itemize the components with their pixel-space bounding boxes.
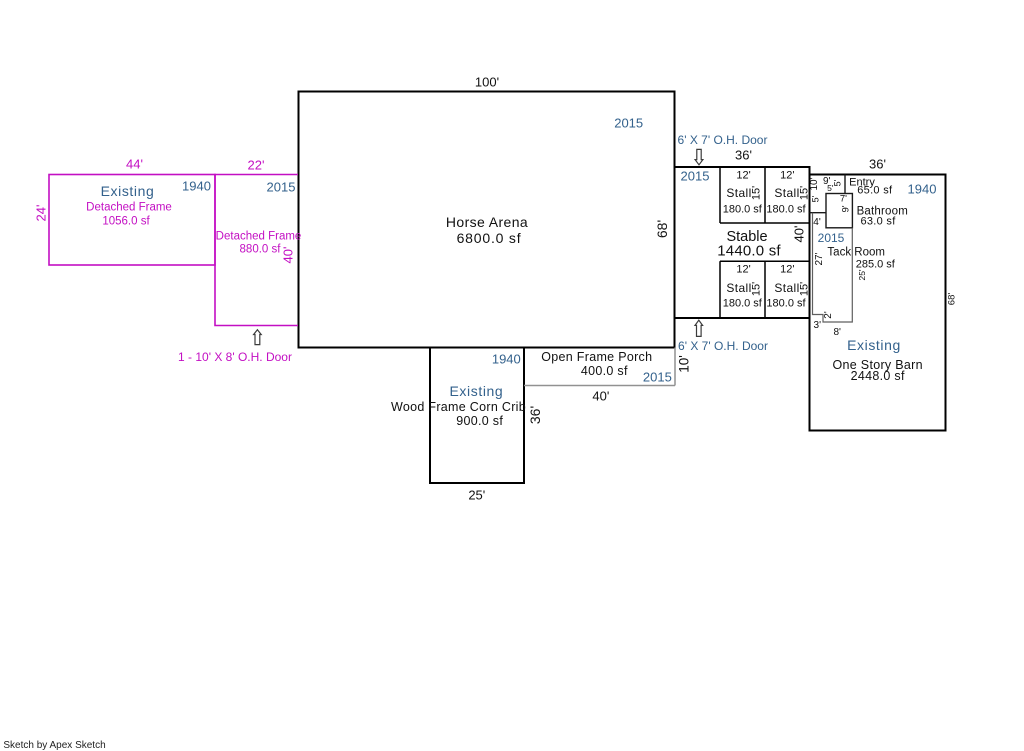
corn crib outline: [430, 348, 524, 484]
label stall r1s1: [726, 187, 751, 199]
area bathroom: [860, 217, 895, 228]
label existing detached frame: [101, 184, 155, 198]
year 1940 barn: [908, 182, 937, 195]
dim 36ft stable: [735, 149, 752, 162]
year 2015 detached frame: [267, 181, 296, 194]
watermark sketch by apex sketch: [3, 741, 105, 751]
dim 40ft porch: [592, 390, 609, 403]
dim 15ft stall r1s2: [799, 186, 810, 200]
dim 8ft tack room: [833, 328, 840, 338]
area stall r1s2: [766, 205, 805, 216]
stall row1 bottom wall: [720, 222, 810, 224]
dim 15ft stall r2s1: [751, 281, 762, 295]
oh door arrow bottom (up): [695, 320, 703, 336]
stall row2 left wall: [719, 261, 721, 318]
oh door arrow top (down): [695, 149, 703, 164]
entry 4ft wall: [810, 212, 827, 214]
label tack room: [827, 248, 885, 260]
label bathroom: [857, 206, 908, 218]
label existing barn: [847, 338, 901, 352]
oh door arrow left building (up): [254, 330, 262, 345]
label open frame porch: [541, 351, 652, 364]
year 2015 stable: [681, 169, 710, 182]
label stall r2s2: [774, 282, 799, 294]
year 2015 tack room: [818, 232, 845, 244]
year 1940 detached frame: [182, 179, 211, 192]
label stall r1s2: [774, 187, 799, 199]
label stable: [726, 229, 767, 244]
label oh door bottom: [678, 340, 768, 352]
area horse arena: [457, 231, 522, 245]
bathroom outline: [826, 194, 852, 228]
area tack room: [856, 260, 895, 271]
year 1940 corn crib: [492, 352, 521, 365]
label entry: [849, 177, 875, 188]
dim 40ft stable: [793, 225, 806, 242]
horse arena outline: [299, 92, 675, 348]
dim 4ft entry: [813, 218, 820, 228]
label wood frame corn crib: [391, 401, 526, 414]
dim 2ft tack room: [824, 311, 834, 318]
dim 36ft barn: [869, 157, 886, 170]
dim 5ft entry b: [833, 180, 842, 187]
dim 12ft stall r2s2: [780, 264, 794, 275]
dim 40ft detached frame 2: [281, 246, 294, 263]
dim 5ft entry c: [811, 195, 820, 202]
label existing corn crib: [449, 384, 503, 398]
stall row1 divider wall: [764, 167, 766, 223]
dim 12ft stall r1s1: [736, 170, 750, 181]
stable outline: [675, 167, 810, 318]
stall row2 top wall: [720, 260, 810, 262]
dim 9ft bathroom: [841, 205, 851, 212]
year 2015 arena: [614, 117, 643, 130]
area one story barn: [851, 370, 905, 383]
dim 10ft entry: [810, 178, 820, 191]
dim 100ft arena: [475, 76, 499, 89]
label detached frame 2: [216, 231, 302, 243]
dim 24ft: [34, 204, 47, 221]
dim 27ft tack room: [815, 253, 825, 266]
area stable: [717, 243, 781, 258]
entry wall: [844, 175, 846, 194]
dim 3ft tack room: [814, 321, 821, 331]
label one story barn: [833, 359, 923, 372]
porch bottom wall: [524, 385, 675, 387]
area detached frame 2: [240, 244, 281, 256]
dim 44ft: [126, 157, 143, 170]
dim 68ft barn: [947, 292, 957, 304]
area stall r1s1: [723, 205, 762, 216]
dim 15ft stall r2s2: [799, 281, 810, 295]
area corn crib: [456, 414, 503, 427]
area stall r2s1: [723, 299, 762, 310]
dim 25ft tack room: [858, 269, 867, 280]
detached frame 880 outline: [215, 175, 298, 326]
area detached frame 1: [102, 216, 149, 228]
label detached frame 1: [86, 202, 172, 214]
area entry: [857, 186, 892, 197]
porch right wall: [674, 348, 676, 386]
dim 25ft corn crib: [468, 488, 485, 501]
label oh door top: [678, 134, 768, 146]
detached frame 1056 outline: [49, 175, 215, 266]
label stall r2s1: [726, 282, 751, 294]
year 2015 porch: [643, 370, 672, 383]
tack room walls: [813, 213, 853, 322]
area stall r2s2: [766, 299, 805, 310]
barn outline: [810, 175, 946, 431]
label oh door left: [178, 351, 292, 363]
dim 10ft porch: [677, 355, 691, 373]
dim 22ft: [248, 158, 265, 171]
area open frame porch: [581, 364, 628, 377]
dim 5ft entry a: [827, 184, 833, 193]
dim 9ft entry: [823, 177, 830, 187]
stall row2 divider wall: [764, 261, 766, 318]
dim 7ft bathroom: [840, 194, 847, 204]
stall row1 left wall: [719, 167, 721, 223]
dim 68ft arena: [655, 219, 669, 237]
label horse arena: [446, 215, 528, 229]
dim 36ft corn crib: [528, 406, 542, 424]
dim 12ft stall r1s2: [780, 170, 794, 181]
dim 12ft stall r2s1: [736, 264, 750, 275]
dim 15ft stall r1s1: [751, 186, 762, 200]
